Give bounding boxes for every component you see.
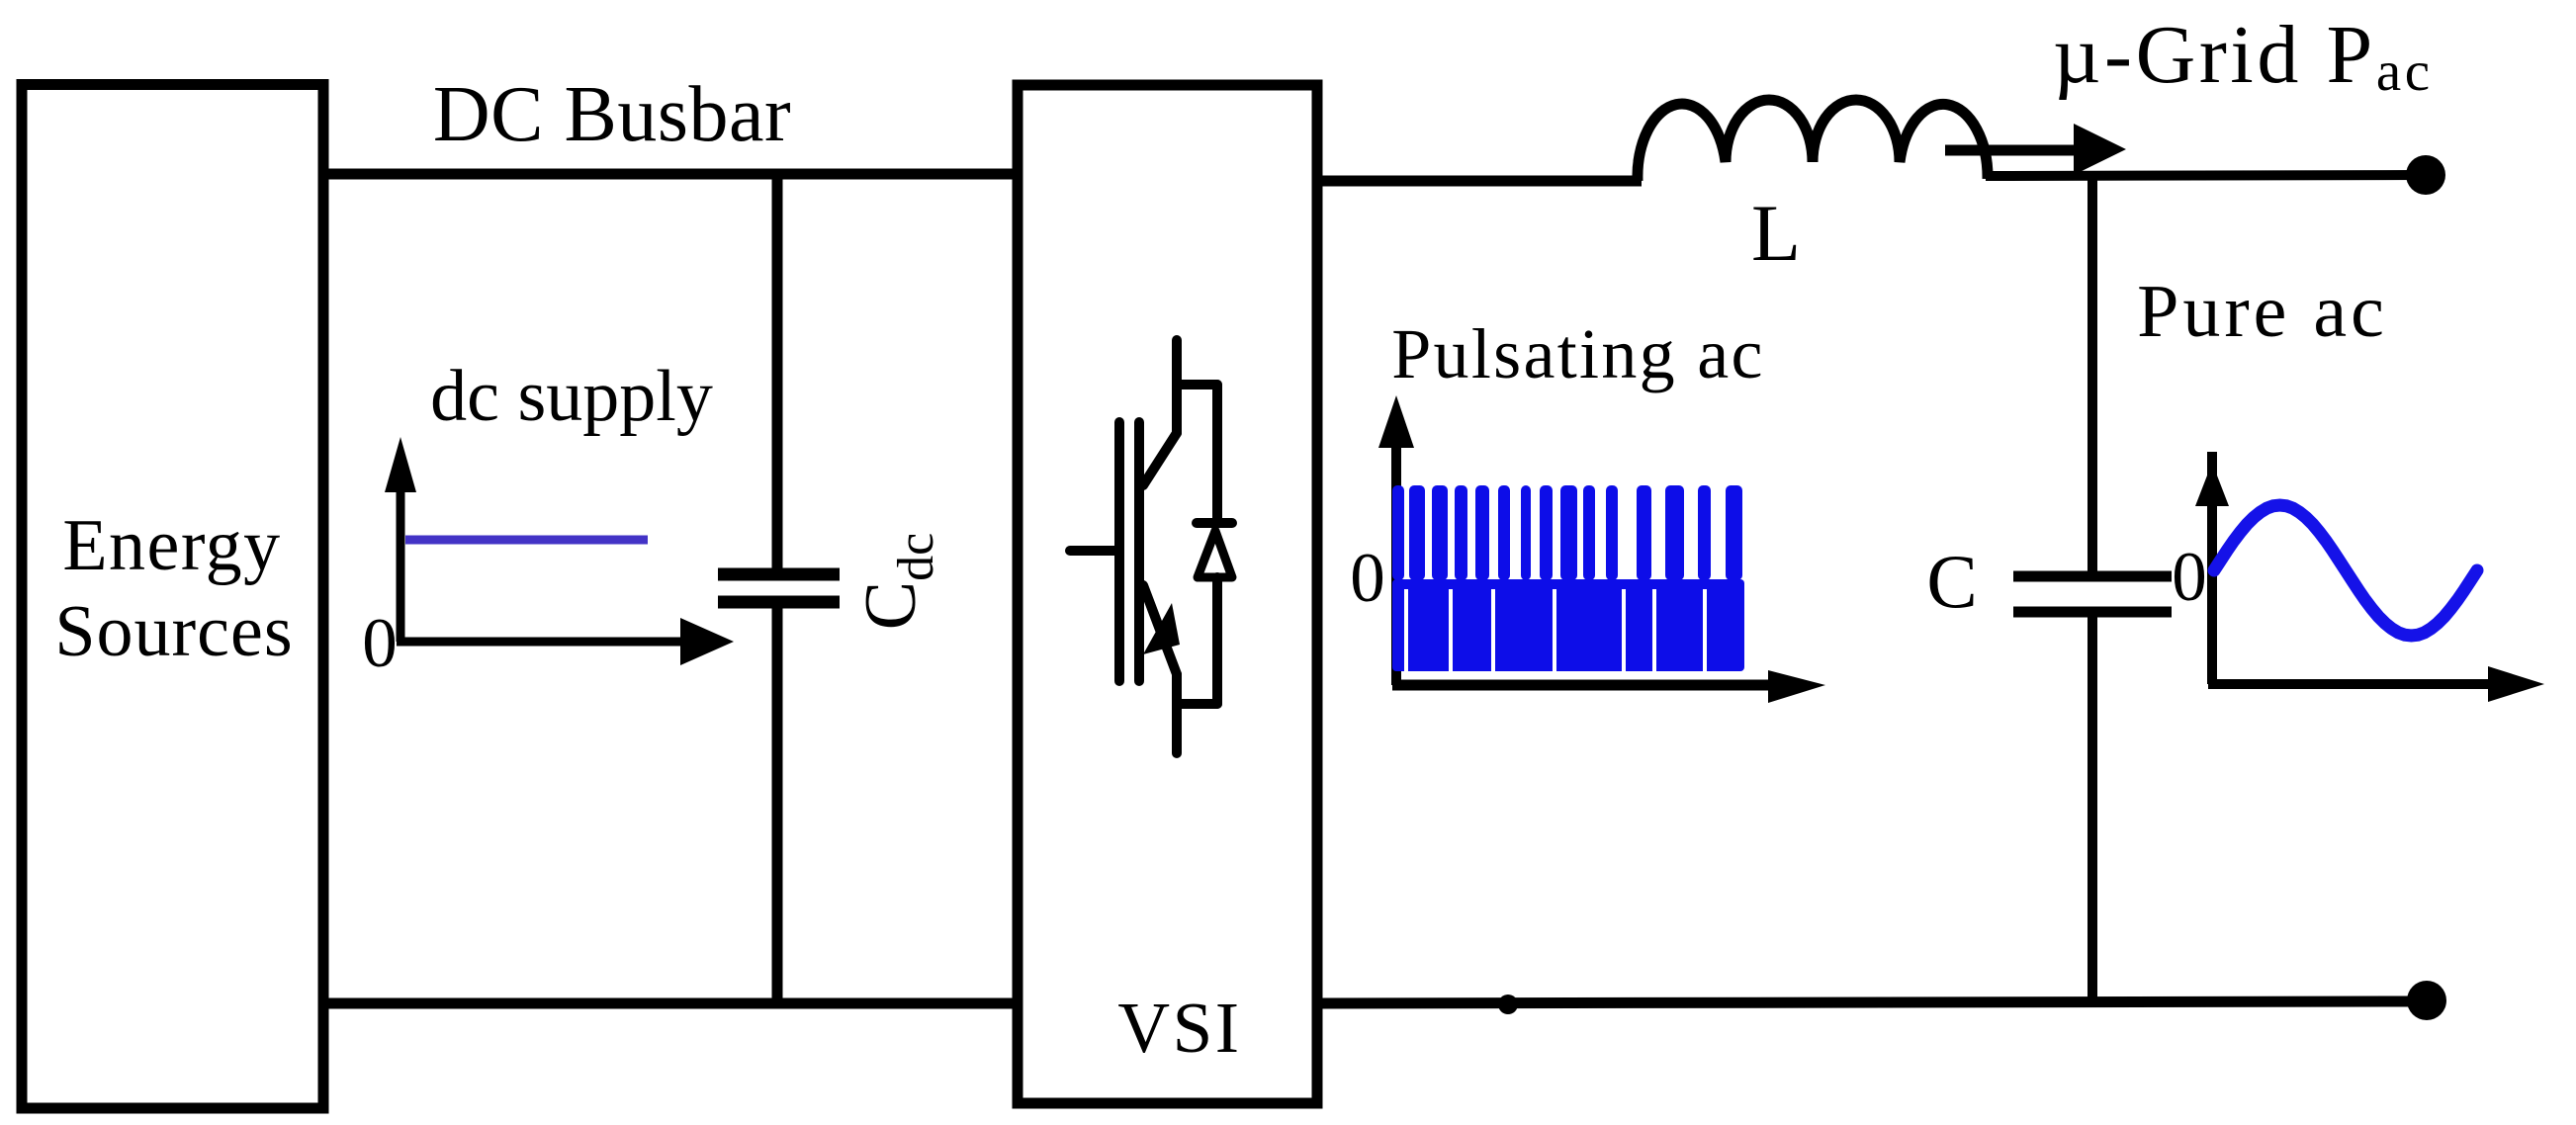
svg-text:Pure ac: Pure ac — [2137, 270, 2388, 353]
svg-text:Pulsating ac: Pulsating ac — [1391, 314, 1765, 393]
svg-text:Energy: Energy — [62, 505, 281, 586]
svg-text:0: 0 — [1350, 540, 1385, 617]
svg-text:µ-Grid Pac: µ-Grid Pac — [2053, 9, 2434, 103]
svg-text:VSI: VSI — [1117, 988, 1241, 1068]
svg-text:DC Busbar: DC Busbar — [433, 71, 791, 158]
svg-text:C: C — [1926, 539, 1977, 624]
svg-text:Sources: Sources — [54, 591, 293, 672]
svg-text:0: 0 — [362, 605, 398, 682]
svg-text:dc supply: dc supply — [430, 356, 713, 437]
svg-text:0: 0 — [2172, 539, 2207, 616]
svg-text:L: L — [1751, 188, 1801, 278]
svg-text:Cdc: Cdc — [850, 533, 944, 630]
